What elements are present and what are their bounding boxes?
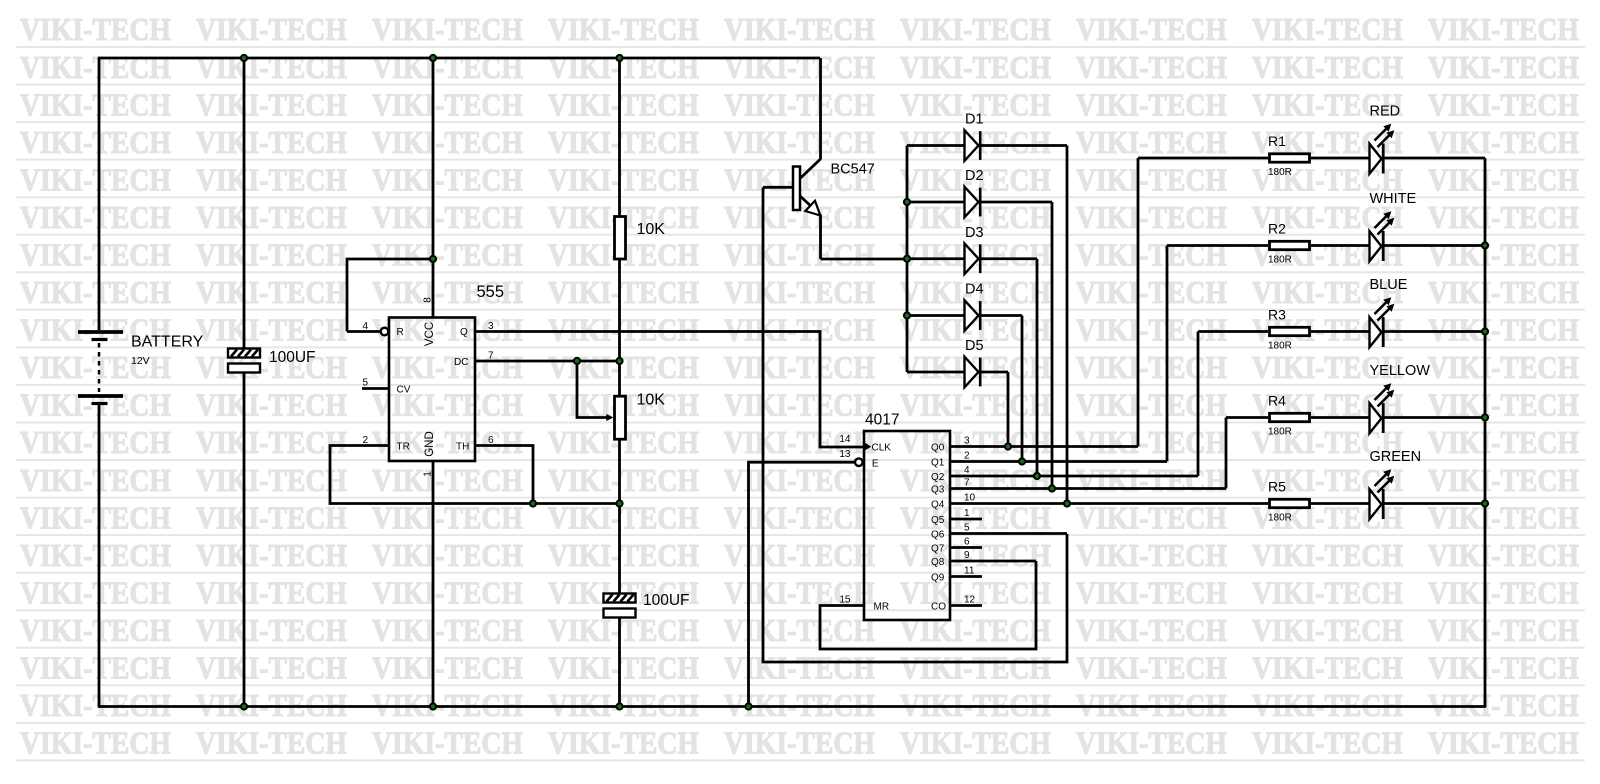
svg-text:VIKI-TECH: VIKI-TECH bbox=[372, 462, 523, 498]
svg-text:15: 15 bbox=[839, 595, 851, 606]
svg-text:VIKI-TECH: VIKI-TECH bbox=[372, 237, 523, 273]
svg-text:VIKI-TECH: VIKI-TECH bbox=[1076, 11, 1227, 47]
svg-text:VIKI-TECH: VIKI-TECH bbox=[1428, 462, 1579, 498]
svg-text:VIKI-TECH: VIKI-TECH bbox=[1076, 274, 1227, 310]
svg-text:VIKI-TECH: VIKI-TECH bbox=[900, 49, 1051, 85]
svg-text:VIKI-TECH: VIKI-TECH bbox=[548, 462, 699, 498]
svg-text:VIKI-TECH: VIKI-TECH bbox=[372, 199, 523, 235]
svg-text:VIKI-TECH: VIKI-TECH bbox=[1428, 199, 1579, 235]
svg-text:VIKI-TECH: VIKI-TECH bbox=[1428, 650, 1579, 686]
svg-text:Q8: Q8 bbox=[931, 557, 945, 568]
svg-text:6: 6 bbox=[488, 435, 494, 446]
svg-text:VIKI-TECH: VIKI-TECH bbox=[900, 387, 1051, 423]
svg-text:VIKI-TECH: VIKI-TECH bbox=[724, 612, 875, 648]
svg-text:VIKI-TECH: VIKI-TECH bbox=[724, 86, 875, 122]
svg-text:VIKI-TECH: VIKI-TECH bbox=[1252, 650, 1403, 686]
svg-text:Q9: Q9 bbox=[931, 573, 945, 584]
svg-text:VIKI-TECH: VIKI-TECH bbox=[196, 424, 347, 460]
svg-text:180R: 180R bbox=[1268, 513, 1292, 524]
svg-text:VIKI-TECH: VIKI-TECH bbox=[1076, 124, 1227, 160]
svg-text:Q6: Q6 bbox=[931, 530, 945, 541]
svg-text:VIKI-TECH: VIKI-TECH bbox=[1076, 462, 1227, 498]
svg-text:Q4: Q4 bbox=[931, 500, 945, 511]
svg-text:VIKI-TECH: VIKI-TECH bbox=[196, 124, 347, 160]
svg-text:VIKI-TECH: VIKI-TECH bbox=[20, 650, 171, 686]
svg-text:VIKI-TECH: VIKI-TECH bbox=[20, 537, 171, 573]
svg-text:VIKI-TECH: VIKI-TECH bbox=[548, 49, 699, 85]
svg-text:VIKI-TECH: VIKI-TECH bbox=[196, 86, 347, 122]
svg-text:VIKI-TECH: VIKI-TECH bbox=[724, 49, 875, 85]
svg-text:WHITE: WHITE bbox=[1370, 191, 1417, 207]
svg-text:VIKI-TECH: VIKI-TECH bbox=[724, 537, 875, 573]
svg-text:VIKI-TECH: VIKI-TECH bbox=[372, 575, 523, 611]
svg-text:4017: 4017 bbox=[865, 412, 899, 429]
svg-text:Q5: Q5 bbox=[931, 515, 945, 526]
svg-text:BC547: BC547 bbox=[831, 162, 875, 178]
svg-text:VIKI-TECH: VIKI-TECH bbox=[1252, 11, 1403, 47]
svg-text:180R: 180R bbox=[1268, 167, 1292, 178]
svg-text:VIKI-TECH: VIKI-TECH bbox=[372, 387, 523, 423]
svg-text:R3: R3 bbox=[1268, 307, 1286, 323]
svg-text:VIKI-TECH: VIKI-TECH bbox=[20, 274, 171, 310]
svg-text:1: 1 bbox=[423, 471, 434, 477]
svg-text:TR: TR bbox=[397, 442, 410, 453]
svg-text:GND: GND bbox=[424, 431, 436, 457]
svg-text:VIKI-TECH: VIKI-TECH bbox=[900, 650, 1051, 686]
svg-text:E: E bbox=[872, 459, 879, 470]
svg-text:14: 14 bbox=[839, 434, 851, 445]
svg-text:VIKI-TECH: VIKI-TECH bbox=[724, 312, 875, 348]
svg-text:VIKI-TECH: VIKI-TECH bbox=[196, 462, 347, 498]
svg-text:VIKI-TECH: VIKI-TECH bbox=[1428, 86, 1579, 122]
svg-text:VIKI-TECH: VIKI-TECH bbox=[548, 86, 699, 122]
svg-text:VIKI-TECH: VIKI-TECH bbox=[372, 725, 523, 761]
svg-text:VIKI-TECH: VIKI-TECH bbox=[724, 237, 875, 273]
svg-text:VIKI-TECH: VIKI-TECH bbox=[1428, 612, 1579, 648]
svg-text:VIKI-TECH: VIKI-TECH bbox=[548, 124, 699, 160]
svg-text:VIKI-TECH: VIKI-TECH bbox=[1428, 312, 1579, 348]
svg-text:VIKI-TECH: VIKI-TECH bbox=[724, 124, 875, 160]
svg-text:VIKI-TECH: VIKI-TECH bbox=[724, 725, 875, 761]
svg-text:12V: 12V bbox=[131, 355, 150, 367]
svg-text:VIKI-TECH: VIKI-TECH bbox=[1428, 124, 1579, 160]
svg-text:VIKI-TECH: VIKI-TECH bbox=[1252, 575, 1403, 611]
svg-text:VIKI-TECH: VIKI-TECH bbox=[20, 11, 171, 47]
svg-text:CLK: CLK bbox=[872, 443, 892, 454]
svg-text:VIKI-TECH: VIKI-TECH bbox=[1076, 86, 1227, 122]
svg-text:VIKI-TECH: VIKI-TECH bbox=[548, 11, 699, 47]
svg-text:10: 10 bbox=[964, 493, 976, 504]
svg-text:13: 13 bbox=[839, 449, 851, 460]
svg-text:5: 5 bbox=[362, 378, 368, 389]
svg-text:YELLOW: YELLOW bbox=[1370, 363, 1431, 379]
svg-text:GREEN: GREEN bbox=[1370, 449, 1422, 465]
svg-text:VIKI-TECH: VIKI-TECH bbox=[1428, 161, 1579, 197]
svg-text:VIKI-TECH: VIKI-TECH bbox=[548, 161, 699, 197]
svg-text:VIKI-TECH: VIKI-TECH bbox=[372, 124, 523, 160]
svg-text:VIKI-TECH: VIKI-TECH bbox=[900, 11, 1051, 47]
svg-text:VIKI-TECH: VIKI-TECH bbox=[1252, 612, 1403, 648]
svg-text:VIKI-TECH: VIKI-TECH bbox=[1076, 537, 1227, 573]
svg-text:VIKI-TECH: VIKI-TECH bbox=[1252, 537, 1403, 573]
svg-text:VIKI-TECH: VIKI-TECH bbox=[1076, 312, 1227, 348]
svg-text:8: 8 bbox=[423, 297, 434, 303]
svg-text:CV: CV bbox=[397, 385, 411, 396]
svg-text:VIKI-TECH: VIKI-TECH bbox=[196, 312, 347, 348]
svg-text:VIKI-TECH: VIKI-TECH bbox=[900, 424, 1051, 460]
svg-text:VIKI-TECH: VIKI-TECH bbox=[20, 237, 171, 273]
svg-text:VIKI-TECH: VIKI-TECH bbox=[1428, 274, 1579, 310]
svg-text:5: 5 bbox=[964, 523, 970, 534]
svg-text:Q7: Q7 bbox=[931, 544, 945, 555]
svg-text:VIKI-TECH: VIKI-TECH bbox=[196, 387, 347, 423]
svg-text:VIKI-TECH: VIKI-TECH bbox=[372, 86, 523, 122]
svg-text:R5: R5 bbox=[1268, 479, 1286, 495]
svg-text:VIKI-TECH: VIKI-TECH bbox=[20, 612, 171, 648]
svg-text:VIKI-TECH: VIKI-TECH bbox=[20, 462, 171, 498]
svg-text:VIKI-TECH: VIKI-TECH bbox=[196, 11, 347, 47]
svg-text:VIKI-TECH: VIKI-TECH bbox=[548, 312, 699, 348]
svg-text:VIKI-TECH: VIKI-TECH bbox=[900, 462, 1051, 498]
svg-text:VIKI-TECH: VIKI-TECH bbox=[1076, 424, 1227, 460]
svg-text:VIKI-TECH: VIKI-TECH bbox=[1076, 725, 1227, 761]
svg-text:D3: D3 bbox=[965, 225, 984, 241]
svg-text:1: 1 bbox=[964, 508, 970, 519]
svg-text:VIKI-TECH: VIKI-TECH bbox=[548, 650, 699, 686]
svg-text:VIKI-TECH: VIKI-TECH bbox=[20, 124, 171, 160]
svg-text:VIKI-TECH: VIKI-TECH bbox=[1428, 537, 1579, 573]
svg-text:4: 4 bbox=[362, 321, 368, 332]
svg-text:VIKI-TECH: VIKI-TECH bbox=[724, 387, 875, 423]
svg-text:7: 7 bbox=[488, 351, 494, 362]
svg-text:180R: 180R bbox=[1268, 427, 1292, 438]
svg-text:VIKI-TECH: VIKI-TECH bbox=[20, 575, 171, 611]
svg-text:VIKI-TECH: VIKI-TECH bbox=[900, 537, 1051, 573]
svg-text:VIKI-TECH: VIKI-TECH bbox=[1428, 424, 1579, 460]
svg-text:VIKI-TECH: VIKI-TECH bbox=[1428, 49, 1579, 85]
svg-text:Q3: Q3 bbox=[931, 485, 945, 496]
svg-text:VIKI-TECH: VIKI-TECH bbox=[1076, 199, 1227, 235]
svg-text:10K: 10K bbox=[637, 221, 666, 238]
svg-text:VIKI-TECH: VIKI-TECH bbox=[1428, 725, 1579, 761]
svg-text:100UF: 100UF bbox=[643, 592, 690, 609]
svg-text:VIKI-TECH: VIKI-TECH bbox=[20, 86, 171, 122]
svg-text:VIKI-TECH: VIKI-TECH bbox=[724, 11, 875, 47]
svg-text:Q1: Q1 bbox=[931, 458, 945, 469]
svg-text:10K: 10K bbox=[637, 392, 666, 409]
svg-text:VIKI-TECH: VIKI-TECH bbox=[724, 274, 875, 310]
svg-text:VIKI-TECH: VIKI-TECH bbox=[1076, 349, 1227, 385]
svg-text:9: 9 bbox=[964, 550, 970, 561]
svg-text:Q0: Q0 bbox=[931, 443, 945, 454]
svg-text:Q: Q bbox=[460, 327, 468, 338]
svg-text:VIKI-TECH: VIKI-TECH bbox=[1076, 387, 1227, 423]
svg-text:BLUE: BLUE bbox=[1370, 277, 1408, 293]
svg-text:VIKI-TECH: VIKI-TECH bbox=[196, 575, 347, 611]
svg-text:11: 11 bbox=[964, 566, 975, 577]
svg-text:VIKI-TECH: VIKI-TECH bbox=[900, 612, 1051, 648]
svg-text:R1: R1 bbox=[1268, 133, 1286, 149]
svg-text:VIKI-TECH: VIKI-TECH bbox=[20, 49, 171, 85]
svg-text:VCC: VCC bbox=[424, 322, 436, 346]
svg-text:VIKI-TECH: VIKI-TECH bbox=[1076, 49, 1227, 85]
svg-text:VIKI-TECH: VIKI-TECH bbox=[372, 612, 523, 648]
svg-text:VIKI-TECH: VIKI-TECH bbox=[196, 274, 347, 310]
svg-text:VIKI-TECH: VIKI-TECH bbox=[1076, 612, 1227, 648]
svg-text:VIKI-TECH: VIKI-TECH bbox=[1076, 575, 1227, 611]
svg-text:VIKI-TECH: VIKI-TECH bbox=[196, 237, 347, 273]
svg-text:CO: CO bbox=[931, 602, 946, 613]
svg-text:VIKI-TECH: VIKI-TECH bbox=[724, 349, 875, 385]
svg-text:R2: R2 bbox=[1268, 221, 1286, 237]
svg-text:D4: D4 bbox=[965, 282, 984, 298]
svg-text:VIKI-TECH: VIKI-TECH bbox=[372, 650, 523, 686]
svg-text:3: 3 bbox=[488, 321, 494, 332]
svg-text:VIKI-TECH: VIKI-TECH bbox=[1428, 11, 1579, 47]
svg-text:MR: MR bbox=[874, 602, 890, 613]
svg-text:3: 3 bbox=[964, 436, 970, 447]
svg-text:180R: 180R bbox=[1268, 255, 1292, 266]
svg-text:R4: R4 bbox=[1268, 393, 1286, 409]
svg-text:555: 555 bbox=[477, 283, 505, 301]
svg-text:TH: TH bbox=[456, 442, 469, 453]
svg-text:VIKI-TECH: VIKI-TECH bbox=[724, 650, 875, 686]
svg-text:BATTERY: BATTERY bbox=[131, 334, 204, 351]
svg-text:VIKI-TECH: VIKI-TECH bbox=[196, 199, 347, 235]
svg-text:VIKI-TECH: VIKI-TECH bbox=[196, 49, 347, 85]
svg-text:4: 4 bbox=[964, 465, 970, 476]
svg-text:VIKI-TECH: VIKI-TECH bbox=[1076, 161, 1227, 197]
svg-text:VIKI-TECH: VIKI-TECH bbox=[1428, 349, 1579, 385]
svg-text:D2: D2 bbox=[965, 168, 984, 184]
svg-text:VIKI-TECH: VIKI-TECH bbox=[372, 161, 523, 197]
svg-text:VIKI-TECH: VIKI-TECH bbox=[548, 274, 699, 310]
svg-text:6: 6 bbox=[964, 537, 970, 548]
svg-text:VIKI-TECH: VIKI-TECH bbox=[372, 11, 523, 47]
svg-text:VIKI-TECH: VIKI-TECH bbox=[20, 725, 171, 761]
svg-text:DC: DC bbox=[454, 357, 468, 368]
svg-text:2: 2 bbox=[362, 435, 368, 446]
svg-text:VIKI-TECH: VIKI-TECH bbox=[20, 199, 171, 235]
svg-text:D1: D1 bbox=[965, 112, 984, 128]
svg-text:VIKI-TECH: VIKI-TECH bbox=[548, 537, 699, 573]
svg-text:VIKI-TECH: VIKI-TECH bbox=[196, 161, 347, 197]
svg-text:VIKI-TECH: VIKI-TECH bbox=[196, 612, 347, 648]
svg-text:VIKI-TECH: VIKI-TECH bbox=[1428, 575, 1579, 611]
svg-text:VIKI-TECH: VIKI-TECH bbox=[548, 725, 699, 761]
svg-text:VIKI-TECH: VIKI-TECH bbox=[1252, 725, 1403, 761]
svg-text:Q2: Q2 bbox=[931, 472, 945, 483]
svg-text:VIKI-TECH: VIKI-TECH bbox=[196, 650, 347, 686]
svg-text:VIKI-TECH: VIKI-TECH bbox=[724, 499, 875, 535]
svg-text:VIKI-TECH: VIKI-TECH bbox=[372, 424, 523, 460]
svg-text:VIKI-TECH: VIKI-TECH bbox=[20, 424, 171, 460]
svg-text:100UF: 100UF bbox=[269, 349, 316, 366]
svg-text:VIKI-TECH: VIKI-TECH bbox=[372, 349, 523, 385]
svg-text:7: 7 bbox=[964, 478, 970, 489]
svg-text:180R: 180R bbox=[1268, 341, 1292, 352]
svg-text:VIKI-TECH: VIKI-TECH bbox=[724, 462, 875, 498]
svg-text:VIKI-TECH: VIKI-TECH bbox=[1076, 237, 1227, 273]
svg-text:VIKI-TECH: VIKI-TECH bbox=[196, 537, 347, 573]
svg-text:VIKI-TECH: VIKI-TECH bbox=[372, 49, 523, 85]
svg-text:RED: RED bbox=[1370, 104, 1401, 120]
svg-text:VIKI-TECH: VIKI-TECH bbox=[1428, 237, 1579, 273]
svg-text:R: R bbox=[397, 327, 404, 338]
svg-text:VIKI-TECH: VIKI-TECH bbox=[196, 725, 347, 761]
svg-text:VIKI-TECH: VIKI-TECH bbox=[724, 424, 875, 460]
svg-text:VIKI-TECH: VIKI-TECH bbox=[900, 725, 1051, 761]
svg-text:D5: D5 bbox=[965, 338, 984, 354]
svg-text:VIKI-TECH: VIKI-TECH bbox=[20, 499, 171, 535]
svg-text:VIKI-TECH: VIKI-TECH bbox=[20, 161, 171, 197]
svg-text:2: 2 bbox=[964, 451, 970, 462]
svg-text:VIKI-TECH: VIKI-TECH bbox=[548, 349, 699, 385]
svg-text:VIKI-TECH: VIKI-TECH bbox=[1252, 49, 1403, 85]
svg-text:VIKI-TECH: VIKI-TECH bbox=[1076, 650, 1227, 686]
svg-text:12: 12 bbox=[964, 594, 976, 605]
svg-text:VIKI-TECH: VIKI-TECH bbox=[372, 537, 523, 573]
svg-text:VIKI-TECH: VIKI-TECH bbox=[196, 499, 347, 535]
